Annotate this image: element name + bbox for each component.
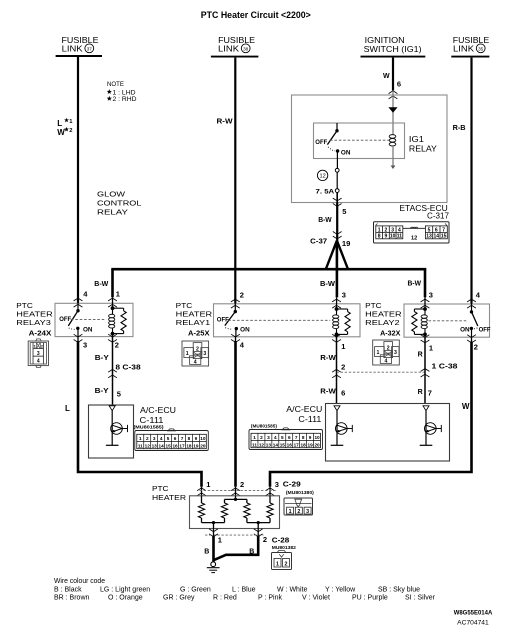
svg-text:4: 4 <box>37 359 40 365</box>
dashed link relay2 coil to switch <box>429 320 467 322</box>
svg-text:3: 3 <box>153 436 156 441</box>
svg-text:7: 7 <box>442 227 445 233</box>
svg-text:FUSIBLE: FUSIBLE <box>218 36 255 45</box>
svg-text:12: 12 <box>411 235 417 241</box>
svg-text:8: 8 <box>188 436 191 441</box>
relay2 switch <box>471 303 473 312</box>
svg-text:SWITCH (IG1): SWITCH (IG1) <box>364 45 422 54</box>
wire fuse to ETACS exit <box>336 193 338 203</box>
svg-text:IGNITION: IGNITION <box>365 36 405 45</box>
svg-text:2: 2 <box>146 436 149 441</box>
svg-text:3: 3 <box>306 509 309 515</box>
svg-text:PU : Purple: PU : Purple <box>352 595 388 602</box>
svg-text:ON: ON <box>460 328 470 334</box>
svg-text:2: 2 <box>385 227 388 233</box>
dashed link relay3 switch to coil <box>71 318 106 320</box>
svg-text:1: 1 <box>186 351 189 357</box>
connector A-25X icon <box>182 341 209 366</box>
svg-text:LINK: LINK <box>62 45 84 54</box>
svg-text:C-317: C-317 <box>427 212 450 221</box>
relay3 box <box>55 303 133 336</box>
svg-text:7: 7 <box>181 436 184 441</box>
svg-text:C-29: C-29 <box>283 479 301 488</box>
PTC heater pin chevrons C-29 <box>197 488 206 491</box>
relay2 pin 4 chevrons <box>467 299 476 302</box>
svg-text:B : Black: B : Black <box>54 587 82 594</box>
svg-text:CONTROL: CONTROL <box>97 199 141 208</box>
relay3 pin 2 chevrons <box>108 334 117 337</box>
svg-text:FUSIBLE: FUSIBLE <box>453 36 490 45</box>
svg-text:12: 12 <box>259 442 265 447</box>
svg-text:15: 15 <box>280 442 286 447</box>
heater resistor 4 <box>267 503 273 518</box>
heater resistor 3 <box>244 503 250 518</box>
svg-text:NOTE: NOTE <box>107 81 125 88</box>
wire switch to fuse <box>336 151 338 168</box>
svg-text:B-W: B-W <box>320 281 335 288</box>
svg-text:17: 17 <box>294 442 300 447</box>
connector A-32X icon <box>373 340 400 365</box>
wire relay2 pin2 to PTC heater pin3 <box>471 337 473 342</box>
relay3 switch <box>77 302 79 311</box>
svg-text:A-25X: A-25X <box>188 330 210 337</box>
svg-text:R: R <box>418 352 423 359</box>
svg-text:(MU801585): (MU801585) <box>251 423 277 428</box>
svg-text:OFF: OFF <box>59 317 71 323</box>
svg-text:11: 11 <box>252 442 257 447</box>
svg-text:OFF: OFF <box>315 140 327 146</box>
svg-text:L: L <box>65 404 70 413</box>
svg-text:10: 10 <box>200 436 206 441</box>
svg-text:W: W <box>383 73 390 80</box>
IG1 relay box <box>314 123 405 159</box>
svg-text:C-37: C-37 <box>310 239 327 246</box>
svg-text:1: 1 <box>253 435 256 440</box>
svg-text:GLOW: GLOW <box>97 190 126 199</box>
svg-text:MU801382: MU801382 <box>272 545 296 550</box>
svg-text:18: 18 <box>301 442 307 447</box>
relay2 box <box>404 304 490 337</box>
svg-text:12: 12 <box>319 174 325 180</box>
svg-text:HEATER: HEATER <box>152 493 187 502</box>
svg-text:12: 12 <box>145 443 151 448</box>
relay1 box <box>214 304 361 337</box>
svg-text:1: 1 <box>289 509 292 515</box>
relay3 parallel resistor <box>113 307 124 309</box>
svg-text:3: 3 <box>83 341 87 350</box>
svg-text:2: 2 <box>240 480 244 489</box>
connector C-111 table left <box>135 431 209 451</box>
connector chevrons C-37 pin 19 <box>333 232 342 235</box>
svg-text:LG : Light green: LG : Light green <box>100 587 150 594</box>
svg-text:R : Red: R : Red <box>213 595 237 602</box>
svg-text:10: 10 <box>390 234 396 240</box>
relay3 coil <box>112 302 114 308</box>
svg-text:20: 20 <box>200 443 206 448</box>
wire ETACS exit to junction C-37 <box>336 203 338 242</box>
svg-text:LINK: LINK <box>218 45 240 54</box>
svg-text:3: 3 <box>429 291 433 300</box>
svg-text:6: 6 <box>397 80 401 89</box>
dashed connector line C-29 <box>200 490 278 492</box>
svg-text:20: 20 <box>314 442 320 447</box>
ground wire B right <box>257 529 259 537</box>
heater element wiring <box>201 496 203 503</box>
svg-text:R-B: R-B <box>453 125 466 132</box>
svg-text:ON: ON <box>240 328 250 334</box>
svg-text:19: 19 <box>342 241 351 248</box>
svg-text:R-W: R-W <box>217 119 233 126</box>
svg-text:1: 1 <box>116 289 120 298</box>
svg-text:RELAY2: RELAY2 <box>365 318 400 327</box>
svg-text:6: 6 <box>341 389 345 398</box>
IG1 relay switch <box>336 123 338 131</box>
relay1 pin 2 chevrons <box>231 299 240 302</box>
svg-text:R: R <box>418 389 423 396</box>
svg-text:R-W: R-W <box>320 355 336 362</box>
A/C-ECU box right <box>326 404 450 462</box>
svg-text:RELAY: RELAY <box>97 208 128 217</box>
svg-text:8: 8 <box>302 435 305 440</box>
bold distribution bus wire <box>111 268 426 271</box>
svg-text:11: 11 <box>397 234 403 240</box>
svg-text:11: 11 <box>138 443 143 448</box>
relay2 coil <box>424 303 426 309</box>
svg-text:3: 3 <box>391 227 394 233</box>
svg-text:B: B <box>204 549 209 556</box>
svg-text:A/C-ECU: A/C-ECU <box>286 405 322 414</box>
svg-text:1: 1 <box>139 436 142 441</box>
connector chevrons ETACS exit <box>333 204 342 207</box>
relay1 switch <box>234 303 236 311</box>
fuse 12 symbol <box>335 168 339 172</box>
svg-text:W : White: W : White <box>277 587 307 594</box>
heater resistor 1 <box>198 503 204 518</box>
svg-text:O : Orange: O : Orange <box>108 595 143 602</box>
svg-text:37: 37 <box>87 46 93 51</box>
svg-text:B: B <box>249 549 254 556</box>
diode symbol <box>388 107 397 113</box>
svg-text:V : Violet: V : Violet <box>302 595 330 602</box>
relay2 pin 3 chevrons <box>421 299 430 302</box>
svg-text:15: 15 <box>441 234 447 240</box>
svg-text:L : Blue: L : Blue <box>232 587 256 594</box>
svg-text:BR : Brown: BR : Brown <box>54 595 90 602</box>
svg-text:2: 2 <box>240 291 244 300</box>
svg-text:AC704741: AC704741 <box>457 619 489 626</box>
fuse number 12 circled <box>317 170 327 180</box>
dashed connector line C-38 <box>337 371 426 373</box>
relay1 pin 1 chevrons <box>332 334 341 337</box>
svg-text:RELAY3: RELAY3 <box>16 318 51 327</box>
svg-text:3: 3 <box>203 351 206 357</box>
svg-text:19: 19 <box>193 443 199 448</box>
svg-text:9: 9 <box>195 436 198 441</box>
wire inside ETACS to coil <box>392 91 394 135</box>
dashed connector line C-28 <box>205 534 264 536</box>
svg-text:L: L <box>57 119 62 128</box>
wire fusible link 38 to relay1 pin2 <box>234 58 236 304</box>
svg-text:18: 18 <box>186 443 192 448</box>
svg-text:15: 15 <box>165 443 171 448</box>
svg-text:8 C-38: 8 C-38 <box>115 365 140 372</box>
svg-text:2 : RHD: 2 : RHD <box>113 96 137 103</box>
svg-text:RELAY: RELAY <box>409 144 437 154</box>
relay2 pin 2 chevrons <box>467 335 476 338</box>
svg-text:14: 14 <box>159 443 165 448</box>
svg-text:SI : Silver: SI : Silver <box>405 595 436 602</box>
svg-text:4: 4 <box>160 436 163 441</box>
svg-text:5: 5 <box>167 436 170 441</box>
wire fusible link 35 to relay2 pin4 <box>470 58 472 304</box>
svg-text:3: 3 <box>275 480 279 489</box>
svg-text:1: 1 <box>218 536 222 545</box>
ETACS-ECU box <box>292 95 448 203</box>
svg-text:5: 5 <box>281 435 284 440</box>
svg-text:16: 16 <box>172 443 178 448</box>
relay1 coil <box>336 303 338 309</box>
heater bottom joins <box>201 518 203 523</box>
transistor right inside right A/C-ECU <box>423 406 429 411</box>
wire relay1 pin1 R-W to AC-ECU <box>336 337 338 404</box>
svg-text:1: 1 <box>341 342 345 351</box>
svg-text:2: 2 <box>474 343 478 352</box>
svg-text:R-W: R-W <box>320 388 336 395</box>
svg-text:SB : Sky blue: SB : Sky blue <box>378 587 420 594</box>
svg-text:LINK: LINK <box>453 45 475 54</box>
dashed link switch to coil <box>330 139 389 141</box>
svg-text:5: 5 <box>342 207 346 216</box>
svg-text:4: 4 <box>194 359 197 365</box>
svg-text:2: 2 <box>297 509 300 515</box>
svg-text:A-32X: A-32X <box>380 330 401 337</box>
svg-text:5: 5 <box>117 389 121 398</box>
svg-text:FUSIBLE: FUSIBLE <box>62 36 99 45</box>
svg-text:3: 3 <box>267 435 270 440</box>
svg-text:4: 4 <box>384 358 387 364</box>
connector A-24X icon <box>28 341 48 366</box>
connector C-29 icon <box>284 498 313 515</box>
junction fan-out wires <box>326 241 348 270</box>
svg-text:A/C-ECU: A/C-ECU <box>140 406 176 415</box>
svg-text:B-W: B-W <box>318 217 332 224</box>
svg-text:7: 7 <box>295 435 298 440</box>
svg-text:(MU801585): (MU801585) <box>134 425 164 430</box>
svg-text:4: 4 <box>274 435 277 440</box>
svg-text:1: 1 <box>429 344 433 353</box>
svg-text:B-Y: B-Y <box>95 388 109 395</box>
svg-text:B-Y: B-Y <box>95 355 109 362</box>
ground wire B left <box>213 529 215 537</box>
connector chevrons ETACS entry <box>389 91 398 94</box>
svg-text:G : Green: G : Green <box>180 587 211 594</box>
svg-text:2: 2 <box>341 363 345 372</box>
relay3 pin 4 chevrons <box>74 298 83 301</box>
svg-text:2: 2 <box>69 128 72 134</box>
svg-text:16: 16 <box>287 442 293 447</box>
relay1 parallel resistor <box>337 308 348 310</box>
svg-text:C-28: C-28 <box>272 535 290 544</box>
svg-text:2: 2 <box>115 341 119 350</box>
svg-text:3: 3 <box>394 350 397 356</box>
svg-text:2: 2 <box>263 535 267 544</box>
svg-text:PTC Heater Circuit <2200>: PTC Heater Circuit <2200> <box>201 10 311 21</box>
svg-text:7. 5A: 7. 5A <box>316 188 335 195</box>
svg-text:2: 2 <box>260 435 263 440</box>
svg-text:A-24X: A-24X <box>29 330 52 337</box>
svg-text:ON: ON <box>341 151 351 157</box>
svg-text:W: W <box>57 128 65 137</box>
ground symbol <box>211 562 216 567</box>
svg-text:B-W: B-W <box>94 281 108 288</box>
PTC heater box <box>190 496 280 529</box>
svg-text:14: 14 <box>273 442 279 447</box>
svg-text:13: 13 <box>266 442 272 447</box>
wire relay2 pin1 R to AC-ECU <box>424 337 426 404</box>
heater resistor 2 <box>221 503 227 518</box>
svg-text:RELAY1: RELAY1 <box>176 318 211 327</box>
wire relay3 pin2 B-Y to AC-ECU <box>112 337 114 406</box>
svg-text:GR : Grey: GR : Grey <box>163 595 195 602</box>
svg-text:1: 1 <box>378 227 381 233</box>
svg-text:14: 14 <box>434 234 440 240</box>
coil lower lead with end arrow <box>392 146 394 166</box>
svg-text:Y : Yellow: Y : Yellow <box>325 587 356 594</box>
relay3 pin 3 chevrons <box>74 334 83 337</box>
svg-text:9: 9 <box>309 435 312 440</box>
svg-text:13: 13 <box>152 443 158 448</box>
svg-text:P : Pink: P : Pink <box>258 595 282 602</box>
svg-text:17: 17 <box>179 443 185 448</box>
wire relay1 pin4 to PTC heater pin2 <box>235 337 237 342</box>
IG1 relay coil <box>389 135 396 139</box>
svg-text:8: 8 <box>378 234 381 240</box>
svg-text:C-111: C-111 <box>298 415 322 424</box>
connector C-317 pin table <box>374 222 450 243</box>
svg-text:(MU801380): (MU801380) <box>286 490 314 495</box>
svg-text:19: 19 <box>307 442 313 447</box>
svg-text:13: 13 <box>426 234 432 240</box>
svg-text:1: 1 <box>276 561 279 567</box>
svg-text:OFF: OFF <box>479 328 491 334</box>
svg-text:5: 5 <box>428 227 431 233</box>
wire ignition switch to ETACS <box>392 58 394 91</box>
svg-text:10: 10 <box>314 435 320 440</box>
svg-text:1 C-38: 1 C-38 <box>432 364 458 371</box>
relay2 pin 1 chevrons <box>421 335 430 338</box>
svg-text:OFF: OFF <box>217 317 229 323</box>
svg-text:38: 38 <box>243 46 249 51</box>
svg-text:ON: ON <box>83 328 93 334</box>
svg-text:6: 6 <box>288 435 291 440</box>
dashed link relay1 switch to coil <box>228 319 330 321</box>
svg-text:7: 7 <box>428 389 432 398</box>
PTC heater bottom pin chevrons C-28 <box>209 529 218 532</box>
A/C-ECU box left <box>89 405 134 458</box>
relay2 parallel resistor <box>414 308 425 310</box>
svg-text:3: 3 <box>342 291 346 300</box>
svg-text:Wire colour code: Wire colour code <box>54 578 105 585</box>
relay3 pin 1 chevrons <box>108 298 117 301</box>
svg-text:C-111: C-111 <box>140 416 165 425</box>
svg-text:6: 6 <box>435 227 438 233</box>
connector C-28 icon <box>272 553 292 570</box>
connector C-111 table right <box>249 430 323 450</box>
wire relay3 pin3 to PTC heater pin1 <box>77 337 79 342</box>
svg-text:35: 35 <box>478 46 484 51</box>
relay1 pin 4 chevrons <box>231 334 240 337</box>
svg-text:W: W <box>462 402 470 411</box>
relay1 pin 3 chevrons <box>332 299 341 302</box>
svg-text:4: 4 <box>398 227 401 233</box>
svg-text:6: 6 <box>174 436 177 441</box>
svg-text:PTC: PTC <box>152 484 169 493</box>
svg-text:B-W: B-W <box>408 281 422 288</box>
transistor left inside right A/C-ECU <box>334 406 340 411</box>
svg-text:W8G55E014A: W8G55E014A <box>454 609 493 616</box>
svg-text:9: 9 <box>385 234 388 240</box>
wire fusible link 37 to relay3 pin4 <box>77 57 79 303</box>
svg-text:2: 2 <box>285 561 288 567</box>
svg-text:1: 1 <box>376 350 379 356</box>
transistor inside left A/C-ECU <box>109 406 115 411</box>
svg-text:1: 1 <box>206 480 210 489</box>
